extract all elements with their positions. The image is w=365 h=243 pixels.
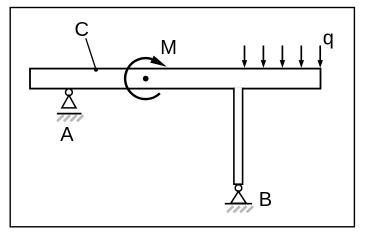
- svg-text:q: q: [323, 28, 334, 50]
- svg-text:C: C: [75, 19, 89, 41]
- svg-text:B: B: [259, 189, 272, 211]
- svg-text:M: M: [160, 37, 177, 59]
- svg-text:A: A: [60, 124, 74, 146]
